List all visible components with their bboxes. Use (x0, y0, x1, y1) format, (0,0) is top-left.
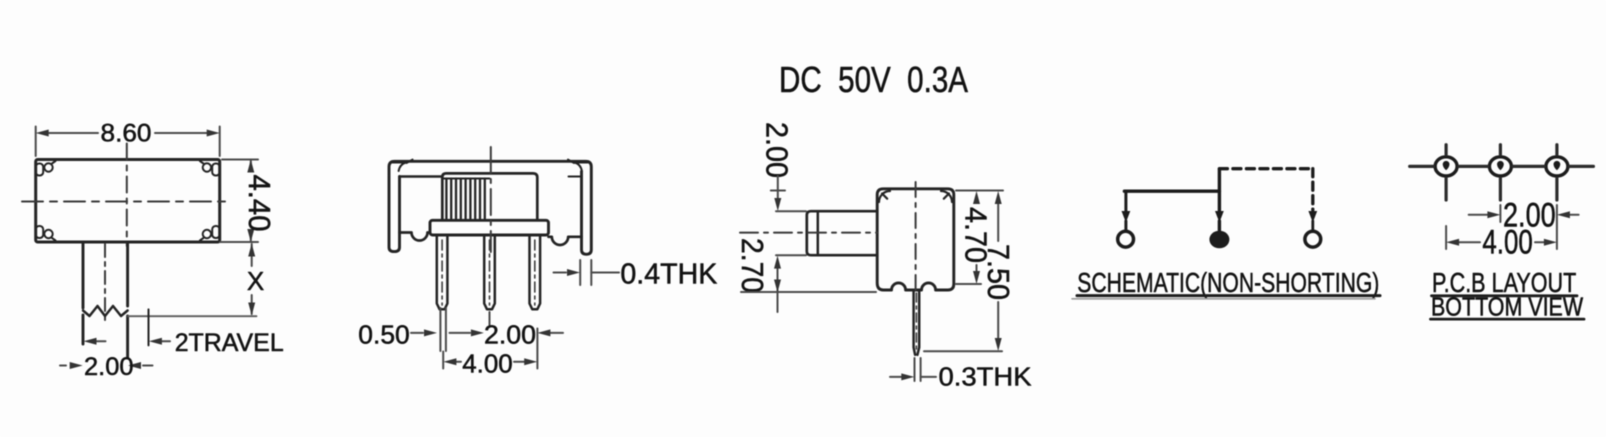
2.00 left arrow (450, 332, 471, 334)
svg-text:BOTTOM VIEW: BOTTOM VIEW (1431, 292, 1583, 322)
0.50 leader line and arrow (411, 332, 423, 334)
2TRAVEL leader arrow (161, 340, 170, 342)
pin 2 centerline (489, 240, 491, 305)
4.00 extension lines (443, 329, 537, 369)
svg-text:SCHEMATIC(NON-SHORTING): SCHEMATIC(NON-SHORTING) (1077, 267, 1379, 298)
svg-text:2.00: 2.00 (760, 122, 795, 178)
body bottom extension to X dim (220, 241, 257, 243)
corner tab bottom-right (200, 226, 220, 241)
pin 1 centerline (441, 240, 443, 305)
knurl top inner line (443, 178, 490, 180)
0.4THK arrow (554, 272, 567, 274)
4.70 dim line (976, 265, 978, 271)
side body outline with bottom scallops (877, 189, 954, 290)
pad1 extension to 4.00 dim (1445, 226, 1447, 249)
base plate (430, 220, 549, 235)
stem break zigzag (83, 306, 128, 316)
wire terminal2 vertical (1218, 169, 1221, 230)
slider knob outline (442, 173, 537, 220)
dimension 4.40 line (250, 161, 252, 241)
svg-text:4.00: 4.00 (1482, 224, 1532, 262)
svg-text:7.50: 7.50 (981, 244, 1016, 300)
svg-text:0.4THK: 0.4THK (620, 259, 718, 291)
svg-text:X: X (247, 266, 264, 296)
pin (view3) (914, 292, 920, 355)
svg-text:4.00: 4.00 (462, 348, 513, 378)
dimension X line (251, 244, 253, 314)
horizontal centerline of body (22, 201, 230, 203)
svg-text:2TRAVEL: 2TRAVEL (175, 329, 284, 357)
terminal 1 circle (1118, 231, 1134, 247)
arrow to terminal 3 (1308, 211, 1317, 223)
arrow to terminal 2 (1215, 211, 1224, 223)
2.00 dim line with down arrow (777, 176, 779, 198)
underline (1077, 294, 1380, 297)
svg-text:0.3THK: 0.3THK (939, 362, 1033, 392)
dimension 8.60 extension lines (36, 127, 220, 157)
4.70 top extension tick (956, 190, 1003, 192)
underline 1 (1432, 294, 1578, 297)
pin 2 (view2) (484, 235, 495, 309)
body bottom extension line left (741, 291, 876, 293)
pcb horizontal axis line (1410, 165, 1594, 168)
housing corner seam top-left (393, 160, 413, 177)
dimension 4.40 extension lines (222, 160, 258, 243)
pin tip extension line (924, 350, 1002, 352)
housing corner seam top-right (568, 160, 588, 177)
4.00 dim line with arrows (1458, 241, 1480, 243)
knob bottom extension line (776, 254, 806, 256)
stem right edge (126, 242, 129, 357)
pin centerline view3 (915, 293, 917, 352)
dashed wire vertical (1311, 169, 1314, 210)
pad 1 vertical crosshair (1444, 145, 1447, 200)
stem centerline (104, 244, 106, 322)
pad 2 center mark (1497, 161, 1504, 170)
knob horizontal centerline (740, 232, 877, 234)
underline 2 (1431, 318, 1585, 321)
arrow to terminal 1 (1122, 211, 1131, 223)
2TRAVEL leader vertical (148, 309, 150, 345)
wire terminal1 vertical (1124, 191, 1127, 229)
corner tab top-right (200, 161, 220, 176)
pin 3 centerline (534, 240, 536, 305)
terminal 2 circle (common, filled) (1209, 231, 1229, 249)
body top extension tick (771, 190, 785, 192)
knurl serration lines (446, 179, 484, 219)
housing top bar underside left (400, 175, 443, 178)
pad 3 vertical crosshair (1555, 145, 1558, 200)
pad 3 center mark (1554, 161, 1561, 170)
4.70 bottom extension tick (956, 283, 981, 285)
switch body front outline (36, 160, 220, 243)
svg-text:8.60: 8.60 (101, 120, 152, 148)
terminal 3 circle (1305, 231, 1321, 247)
pad 2 ring (1489, 157, 1511, 176)
pin 1 (view2) (437, 235, 448, 309)
pad2 extension to dim (1499, 205, 1501, 222)
travel end line (128, 315, 257, 317)
0.50 extension line pair (440, 308, 446, 351)
svg-text:4.40: 4.40 (242, 175, 277, 232)
housing outline with side walls (389, 161, 591, 254)
svg-text:2.00: 2.00 (84, 353, 134, 381)
pad 1 center mark (1443, 161, 1450, 170)
vertical centerline view3 (915, 182, 917, 296)
corner tab marks top-left (879, 191, 890, 202)
housing lower profile left with notch (400, 233, 431, 241)
2.00 right arrow (550, 332, 563, 334)
pad 3 ring (1546, 157, 1568, 176)
knob top extension line (776, 210, 806, 212)
dimension 2.00 right arrow (143, 365, 153, 367)
knob stem side outline (807, 211, 877, 255)
pad3 extension to dims (1556, 205, 1558, 249)
wire solid horizontal (1124, 189, 1219, 192)
pin2 center extension (489, 312, 491, 327)
dashed wire horizontal (1219, 167, 1312, 170)
0.4THK leader to text (591, 272, 619, 274)
stem left edge (82, 242, 85, 344)
svg-text:0.50: 0.50 (358, 320, 409, 350)
pad 2 vertical crosshair (1499, 145, 1502, 200)
0.3THK extension pair (915, 358, 921, 381)
2.70 dim line with arrows (777, 268, 779, 312)
0.3THK leader (921, 376, 936, 378)
view2 vertical centerline (490, 147, 492, 252)
0.4THK wall thickness extension pair (580, 260, 591, 285)
4.00 dim line with arrows (457, 361, 462, 363)
svg-text:2.70: 2.70 (735, 238, 770, 293)
2.00 left arrow (1469, 214, 1487, 216)
2.00 right arrow (1570, 214, 1579, 216)
corner tab marks top-right (941, 191, 952, 202)
corner tab bottom-left (36, 226, 56, 241)
dimension 8.60 line with arrows (49, 132, 207, 134)
housing lower profile right with notch (549, 237, 582, 245)
svg-text:2.00: 2.00 (484, 320, 536, 350)
dimension 2.00 left arrow (60, 365, 66, 367)
pin 3 (view2) (530, 235, 541, 309)
svg-text:DC 50V 0.3A: DC 50V 0.3A (779, 59, 968, 100)
pad 1 ring (1435, 157, 1457, 176)
0.3THK left arrow (890, 376, 901, 378)
7.50 dim line (997, 204, 999, 338)
corner tab top-left (36, 161, 56, 176)
knob end cap line (817, 211, 820, 255)
travel arrow at stem (96, 340, 106, 342)
vertical centerline of body (126, 144, 128, 247)
